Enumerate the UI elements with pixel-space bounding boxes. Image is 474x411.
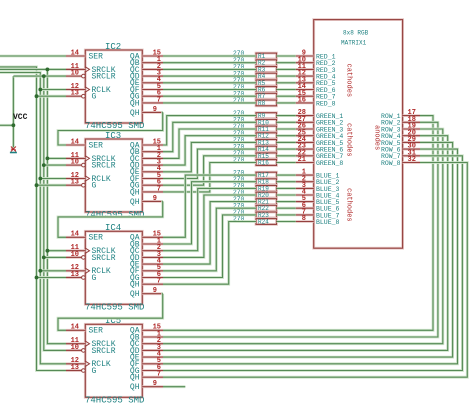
wire net RED_4 IC2.QD to R4 [163, 75, 256, 78]
IC3 pin 1 QB stub [142, 150, 163, 153]
MATRIX1 pin 30 ROW_6 stub [403, 148, 420, 151]
resistor R19 body [256, 186, 277, 192]
IC3 pin 6 QG stub [142, 184, 163, 187]
IC5 pin 5 QF stub [142, 362, 163, 365]
svg-text:7: 7 [157, 278, 161, 286]
svg-text:QH: QH [130, 281, 140, 290]
MATRIX1 pin 10 RED_2 stub [296, 61, 314, 64]
resistor R22 body [256, 205, 277, 211]
shift register IC5 74HC595 [85, 324, 142, 397]
IC2 G inversion bubble [82, 94, 86, 98]
IC5 pin 15 QA stub [142, 329, 163, 332]
IC4 pin 10 SRCLR stub [66, 256, 82, 259]
IC4 pin 1 QB stub [142, 243, 163, 246]
wire net RED_2 IC2.QB to R2 [163, 61, 256, 64]
wire net ROW_4 IC5.QD to MATRIX1 [163, 136, 448, 351]
IC5 pin 14 SER stub [66, 329, 85, 332]
wire net VCC vertical [12, 76, 15, 147]
IC5 pin 9 QH' stub [142, 385, 163, 388]
svg-text:BLUE_8: BLUE_8 [316, 219, 340, 226]
svg-text:SER: SER [89, 52, 104, 61]
MATRIX1 pin 32 ROW_8 stub [403, 161, 420, 164]
wire tap G to IC4 [37, 276, 67, 279]
wire net RED_3 IC2.QC to R3 [163, 68, 256, 71]
svg-text:10: 10 [71, 251, 79, 259]
MATRIX1 pin 2 BLUE_2 stub [296, 180, 314, 183]
svg-text:7: 7 [157, 185, 161, 193]
junction SRCLR at IC3 [42, 163, 46, 167]
IC5 pin 6 QG stub [142, 369, 163, 372]
svg-text:G: G [92, 367, 97, 376]
wire net GREEN_8 IC3.QH to R16 [163, 163, 256, 192]
IC4 SRCLR inversion bubble [82, 256, 86, 260]
IC3 RCLK clock wedge [85, 176, 89, 181]
IC4 G inversion bubble [82, 276, 86, 280]
shift register IC4 74HC595 [85, 231, 142, 304]
wire net GREEN_7 IC3.QG to R15 [163, 156, 256, 185]
resistor R12 body [256, 133, 277, 139]
MATRIX1 pin 5 BLUE_5 stub [296, 200, 314, 203]
junction G at IC2 [35, 94, 39, 98]
svg-text:10: 10 [71, 70, 79, 78]
svg-text:IC3: IC3 [105, 131, 121, 141]
IC3 pin 12 RCLK stub [66, 177, 85, 180]
svg-text:13: 13 [71, 364, 79, 372]
svg-text:7: 7 [157, 371, 161, 379]
wire net GREEN_6 R14 to MATRIX1 [277, 148, 296, 151]
wire net RED_1 R1 to MATRIX1 [277, 55, 296, 58]
junction RCLK at IC3 [38, 177, 42, 181]
MATRIX1 pin 28 GREEN_1 stub [296, 114, 314, 117]
IC2 pin 5 QF stub [142, 88, 163, 91]
wire net GREEN_3 R11 to MATRIX1 [277, 128, 296, 131]
IC2 pin 7 QH stub [142, 102, 163, 105]
svg-text:QH: QH [130, 198, 140, 207]
wire net GREEN_6 IC3.QF to R14 [163, 149, 256, 178]
IC2 pin 11 SRCLK stub [66, 68, 85, 71]
IC2 pin 14 SER stub [66, 55, 85, 58]
wire net GREEN_7 R15 to MATRIX1 [277, 154, 296, 157]
MATRIX1 pin 1 BLUE_1 stub [296, 174, 314, 177]
wire net BLUE_1 R17 to MATRIX1 [277, 174, 296, 177]
MATRIX1 pin 18 ROW_2 stub [403, 121, 420, 124]
shift register IC3 74HC595 [85, 139, 142, 212]
resistor R9 body [256, 113, 277, 119]
resistor R16 body [256, 160, 277, 166]
wire net GREEN_4 R12 to MATRIX1 [277, 134, 296, 137]
resistor R10 body [256, 119, 277, 125]
svg-text:SRCLR: SRCLR [92, 254, 116, 263]
resistor R13 body [256, 140, 277, 146]
wire net BLUE_3 R19 to MATRIX1 [277, 187, 296, 190]
resistor R14 body [256, 146, 277, 152]
resistor R24 body [256, 219, 277, 225]
svg-text:74HC595 SMD: 74HC595 SMD [85, 210, 144, 220]
IC5 SRCLR inversion bubble [82, 349, 86, 353]
LED matrix MATRIX1 8x8 RGB body [314, 20, 403, 249]
IC2 pin 12 RCLK stub [66, 88, 85, 91]
IC5 pin 2 QC stub [142, 342, 163, 345]
svg-text:ROW_8: ROW_8 [381, 160, 401, 167]
IC3 SRCLK clock wedge [85, 156, 89, 161]
IC3 pin 14 SER stub [66, 144, 85, 147]
svg-text:R24: R24 [258, 219, 269, 226]
resistor R21 body [256, 199, 277, 205]
IC5 pin 11 SRCLK stub [66, 342, 85, 345]
wire net GREEN_1 R9 to MATRIX1 [277, 114, 296, 117]
wire net GREEN_8 R16 to MATRIX1 [277, 161, 296, 164]
svg-text:QH: QH [130, 109, 140, 118]
svg-text:IC4: IC4 [105, 223, 121, 233]
resistor R11 body [256, 126, 277, 132]
wire net ROW_6 IC5.QF to MATRIX1 [163, 149, 458, 364]
wire net BLUE_8 IC4.QH to R24 [163, 222, 256, 285]
svg-text:14: 14 [71, 231, 79, 239]
wire net SRCLR bus vertical [44, 76, 66, 350]
IC3 G inversion bubble [82, 183, 86, 187]
wire net VCC to SRCLR pin [13, 75, 66, 78]
IC3 pin 2 QC stub [142, 157, 163, 160]
wire tap RCLK to IC4 [40, 269, 66, 272]
IC4 RCLK clock wedge [85, 268, 89, 273]
svg-text:21: 21 [298, 156, 306, 164]
wire net BLUE_3 IC4.QC to R19 [163, 188, 256, 250]
svg-text:SER: SER [89, 141, 104, 150]
junction SRCLK at IC4 [46, 249, 50, 253]
svg-text:QH: QH [130, 188, 140, 197]
IC3 SRCLR inversion bubble [82, 163, 86, 167]
wire net GREEN_2 R10 to MATRIX1 [277, 121, 296, 124]
junction SRCLR at IC2 [42, 74, 46, 78]
svg-text:9: 9 [153, 106, 157, 114]
wire net ROW_8 IC5.QH to MATRIX1 [163, 163, 467, 378]
wire net VCC to IC2.SRCLR [0, 124, 13, 127]
wire net BLUE_6 R22 to MATRIX1 [277, 207, 296, 210]
resistor R7 body [256, 93, 277, 99]
resistor R8 body [256, 100, 277, 106]
svg-text:G: G [92, 274, 97, 283]
wire net GREEN_3 IC3.QC to R11 [163, 129, 256, 158]
IC2 pin 2 QC stub [142, 68, 163, 71]
supply symbol VCC [11, 147, 16, 152]
wire net DATA to IC2.SER from left edge [0, 55, 66, 58]
svg-text:74HC595 SMD: 74HC595 SMD [85, 396, 144, 406]
wire tap SRCLR to IC3 [44, 164, 66, 167]
svg-text:13: 13 [71, 271, 79, 279]
wire net ROW_1 IC5.QA to MATRIX1 [163, 116, 433, 331]
MATRIX1 pin 8 BLUE_8 stub [296, 220, 314, 223]
wire net BLUE_7 IC4.QG to R23 [163, 215, 256, 278]
resistor R23 body [256, 212, 277, 218]
junction RCLK at IC2 [38, 88, 42, 92]
svg-text:MATRIX1: MATRIX1 [341, 40, 367, 47]
resistor R3 body [256, 67, 277, 73]
junction G at IC4 [35, 276, 39, 280]
svg-text:R8: R8 [258, 100, 266, 107]
IC4 pin 13 G stub [66, 276, 82, 279]
IC4 pin 4 QE stub [142, 263, 163, 266]
svg-text:9: 9 [153, 380, 157, 388]
svg-text:G: G [92, 93, 97, 102]
svg-text:13: 13 [71, 179, 79, 187]
IC3 pin 10 SRCLR stub [66, 164, 82, 167]
wire net GREEN_1 IC3.QA to R9 [163, 116, 256, 145]
resistor R1 body [256, 53, 277, 59]
IC3 pin 9 QH' stub [142, 200, 163, 203]
IC5 pin 3 QD stub [142, 349, 163, 352]
resistor R17 body [256, 172, 277, 178]
svg-text:10: 10 [71, 159, 79, 167]
IC3 pin 3 QD stub [142, 164, 163, 167]
IC5 SRCLK clock wedge [85, 341, 89, 346]
IC3 pin 5 QF stub [142, 177, 163, 180]
resistor R4 body [256, 73, 277, 79]
MATRIX1 pin 29 ROW_5 stub [403, 141, 420, 144]
svg-text:8: 8 [302, 215, 306, 223]
svg-text:7: 7 [157, 96, 161, 104]
svg-text:QH: QH [130, 99, 140, 108]
MATRIX1 pin 16 RED_8 stub [296, 102, 314, 105]
svg-text:QH: QH [130, 290, 140, 299]
resistor R20 body [256, 192, 277, 198]
wire net GREEN_5 R13 to MATRIX1 [277, 141, 296, 144]
svg-text:G: G [92, 182, 97, 191]
wire tap G to IC2 [37, 95, 67, 98]
wire tap RCLK to IC2 [40, 88, 66, 91]
MATRIX1 pin 27 GREEN_2 stub [296, 121, 314, 124]
wire net RED_7 R7 to MATRIX1 [277, 95, 296, 98]
svg-text:IC2: IC2 [105, 42, 121, 52]
junction G at IC3 [35, 183, 39, 187]
IC2 pin 9 QH' stub [142, 111, 163, 114]
MATRIX1 pin 17 ROW_1 stub [403, 114, 420, 117]
IC3 pin 15 QA stub [142, 144, 163, 147]
svg-text:74HC595 SMD: 74HC595 SMD [85, 303, 144, 313]
junction SRCLK at IC3 [46, 157, 50, 161]
svg-text:8x8 RGB: 8x8 RGB [343, 30, 369, 37]
svg-text:32: 32 [408, 156, 416, 164]
wire net RED_8 R8 to MATRIX1 [277, 102, 296, 105]
wire net GREEN_5 IC3.QE to R13 [163, 142, 256, 171]
wire tap SRCLK to IC3 [47, 157, 66, 160]
IC5 pin 1 QB stub [142, 336, 163, 339]
svg-text:QH: QH [130, 383, 140, 392]
IC2 pin 1 QB stub [142, 61, 163, 64]
wire net SRCLK bus vertical [47, 69, 66, 343]
wire net BLUE_2 R18 to MATRIX1 [277, 180, 296, 183]
wire net ROW_5 IC5.QE to MATRIX1 [163, 142, 453, 357]
IC4 pin 7 QH stub [142, 283, 163, 286]
svg-text:13: 13 [71, 90, 79, 98]
IC5 pin 13 G stub [66, 369, 82, 372]
svg-text:SRCLR: SRCLR [92, 347, 116, 356]
wire net RCLK feed from left edge [0, 73, 66, 364]
IC2 pin 10 SRCLR stub [66, 75, 82, 78]
wire tap G to IC3 [37, 184, 67, 187]
svg-text:cathodes: cathodes [345, 123, 353, 157]
IC5 pin 4 QE stub [142, 356, 163, 359]
IC4 pin 6 QG stub [142, 276, 163, 279]
MATRIX1 pin 13 RED_5 stub [296, 81, 314, 84]
wire net BLUE_4 IC4.QD to R20 [163, 195, 256, 257]
wire net BLUE_5 IC4.QE to R21 [163, 202, 256, 265]
wire tap SRCLR to IC4 [44, 256, 66, 259]
MATRIX1 pin 4 BLUE_4 stub [296, 194, 314, 197]
svg-text:14: 14 [71, 138, 79, 146]
MATRIX1 pin 15 RED_7 stub [296, 95, 314, 98]
svg-text:10: 10 [71, 344, 79, 352]
wire net GREEN_4 IC3.QD to R12 [163, 136, 256, 165]
wire tap SRCLK to IC4 [47, 249, 66, 252]
svg-text:SER: SER [89, 234, 104, 243]
IC4 pin 11 SRCLK stub [66, 249, 85, 252]
IC2 pin 6 QG stub [142, 95, 163, 98]
MATRIX1 pin 24 GREEN_5 stub [296, 141, 314, 144]
svg-text:R16: R16 [258, 160, 269, 167]
IC4 pin 2 QC stub [142, 249, 163, 252]
MATRIX1 pin 31 ROW_7 stub [403, 154, 420, 157]
wire net RED_3 R3 to MATRIX1 [277, 68, 296, 71]
wire net GREEN_2 IC3.QB to R10 [163, 122, 256, 151]
MATRIX1 pin 23 GREEN_6 stub [296, 148, 314, 151]
MATRIX1 pin 26 GREEN_3 stub [296, 128, 314, 131]
IC2 pin 15 QA stub [142, 55, 163, 58]
wire net G feed from left edge [0, 67, 66, 371]
IC5 pin 12 RCLK stub [66, 362, 85, 365]
junction RCLK at IC4 [38, 269, 42, 273]
IC2 pin 13 G stub [66, 95, 82, 98]
svg-text:9: 9 [153, 195, 157, 203]
resistor R15 body [256, 153, 277, 159]
MATRIX1 pin 11 RED_3 stub [296, 68, 314, 71]
junction SRCLK at IC2 [46, 68, 50, 72]
junction SRCLR at IC4 [42, 256, 46, 260]
svg-text:9: 9 [153, 287, 157, 295]
resistor R5 body [256, 80, 277, 86]
IC2 SRCLR inversion bubble [82, 74, 86, 78]
wire net BLUE_1 IC4.QA to R17 [163, 175, 256, 237]
IC2 pin 3 QD stub [142, 75, 163, 78]
svg-text:14: 14 [71, 324, 79, 332]
wire IC5.QH' dangling [163, 385, 185, 388]
IC5 pin 10 SRCLR stub [66, 349, 82, 352]
IC2 RCLK clock wedge [85, 87, 89, 92]
wire net BLUE_6 IC4.QF to R22 [163, 208, 256, 271]
IC4 pin 9 QH' stub [142, 292, 163, 295]
svg-text:GREEN_8: GREEN_8 [316, 160, 343, 167]
wire net SRCLK feed from left edge [0, 68, 66, 71]
wire net RED_6 IC2.QF to R6 [163, 88, 256, 91]
IC3 pin 13 G stub [66, 184, 82, 187]
MATRIX1 pin 19 ROW_3 stub [403, 128, 420, 131]
svg-text:cathodes: cathodes [345, 188, 353, 222]
wire net BLUE_4 R20 to MATRIX1 [277, 194, 296, 197]
resistor R2 body [256, 60, 277, 66]
MATRIX1 pin 9 RED_1 stub [296, 55, 314, 58]
wire cascade IC3.QH' to IC4.SER [58, 201, 163, 237]
wire net RED_7 IC2.QG to R7 [163, 95, 256, 98]
IC2 pin 4 QE stub [142, 81, 163, 84]
IC2 SRCLK clock wedge [85, 67, 89, 72]
wire net BLUE_2 IC4.QB to R18 [163, 182, 256, 244]
wire net ROW_7 IC5.QG to MATRIX1 [163, 156, 462, 371]
MATRIX1 pin 22 GREEN_7 stub [296, 154, 314, 157]
MATRIX1 pin 3 BLUE_3 stub [296, 187, 314, 190]
svg-text:SRCLR: SRCLR [92, 162, 116, 171]
IC5 RCLK clock wedge [85, 361, 89, 366]
wire net ROW_2 IC5.QB to MATRIX1 [163, 122, 438, 337]
IC4 pin 15 QA stub [142, 236, 163, 239]
resistor R18 body [256, 179, 277, 185]
IC5 pin 7 QH stub [142, 376, 163, 379]
MATRIX1 pin 20 ROW_4 stub [403, 134, 420, 137]
IC3 pin 11 SRCLK stub [66, 157, 85, 160]
svg-text:16: 16 [298, 97, 306, 105]
IC4 SRCLK clock wedge [85, 248, 89, 253]
IC4 pin 12 RCLK stub [66, 269, 85, 272]
wire net RED_5 R5 to MATRIX1 [277, 81, 296, 84]
svg-text:QH: QH [130, 374, 140, 383]
wire cascade IC2.QH' to IC3.SER [58, 112, 163, 145]
svg-text:SER: SER [89, 327, 104, 336]
IC5 G inversion bubble [82, 369, 86, 373]
IC3 pin 7 QH stub [142, 190, 163, 193]
IC3 pin 4 QE stub [142, 170, 163, 173]
wire net ROW_3 IC5.QC to MATRIX1 [163, 129, 443, 344]
svg-text:RED_8: RED_8 [316, 100, 336, 107]
wire net RED_4 R4 to MATRIX1 [277, 75, 296, 78]
wire cascade IC4.QH' to IC5.SER [58, 294, 163, 331]
IC4 pin 3 QD stub [142, 256, 163, 259]
wire net RED_1 IC2.QA to R1 [163, 55, 256, 58]
svg-text:cathodes: cathodes [345, 64, 353, 98]
MATRIX1 pin 6 BLUE_6 stub [296, 207, 314, 210]
shift register IC2 74HC595 [85, 50, 142, 123]
junction VCC [12, 123, 16, 127]
svg-text:VCC: VCC [13, 113, 28, 122]
MATRIX1 pin 14 RED_6 stub [296, 88, 314, 91]
svg-text:14: 14 [71, 49, 79, 57]
wire net RED_5 IC2.QE to R5 [163, 81, 256, 84]
svg-text:anodes: anodes [373, 125, 381, 150]
wire net RED_8 IC2.QH to R8 [163, 102, 256, 105]
MATRIX1 pin 7 BLUE_7 stub [296, 213, 314, 216]
wire net BLUE_5 R21 to MATRIX1 [277, 200, 296, 203]
MATRIX1 pin 21 GREEN_8 stub [296, 161, 314, 164]
MATRIX1 pin 12 RED_4 stub [296, 75, 314, 78]
resistor R6 body [256, 87, 277, 93]
wire net RED_2 R2 to MATRIX1 [277, 61, 296, 64]
IC4 pin 5 QF stub [142, 269, 163, 272]
wire net BLUE_8 R24 to MATRIX1 [277, 220, 296, 223]
wire net BLUE_7 R23 to MATRIX1 [277, 213, 296, 216]
svg-text:SRCLR: SRCLR [92, 73, 116, 82]
wire net RED_6 R6 to MATRIX1 [277, 88, 296, 91]
IC4 pin 14 SER stub [66, 236, 85, 239]
wire tap RCLK to IC3 [40, 177, 66, 180]
MATRIX1 pin 25 GREEN_4 stub [296, 134, 314, 137]
